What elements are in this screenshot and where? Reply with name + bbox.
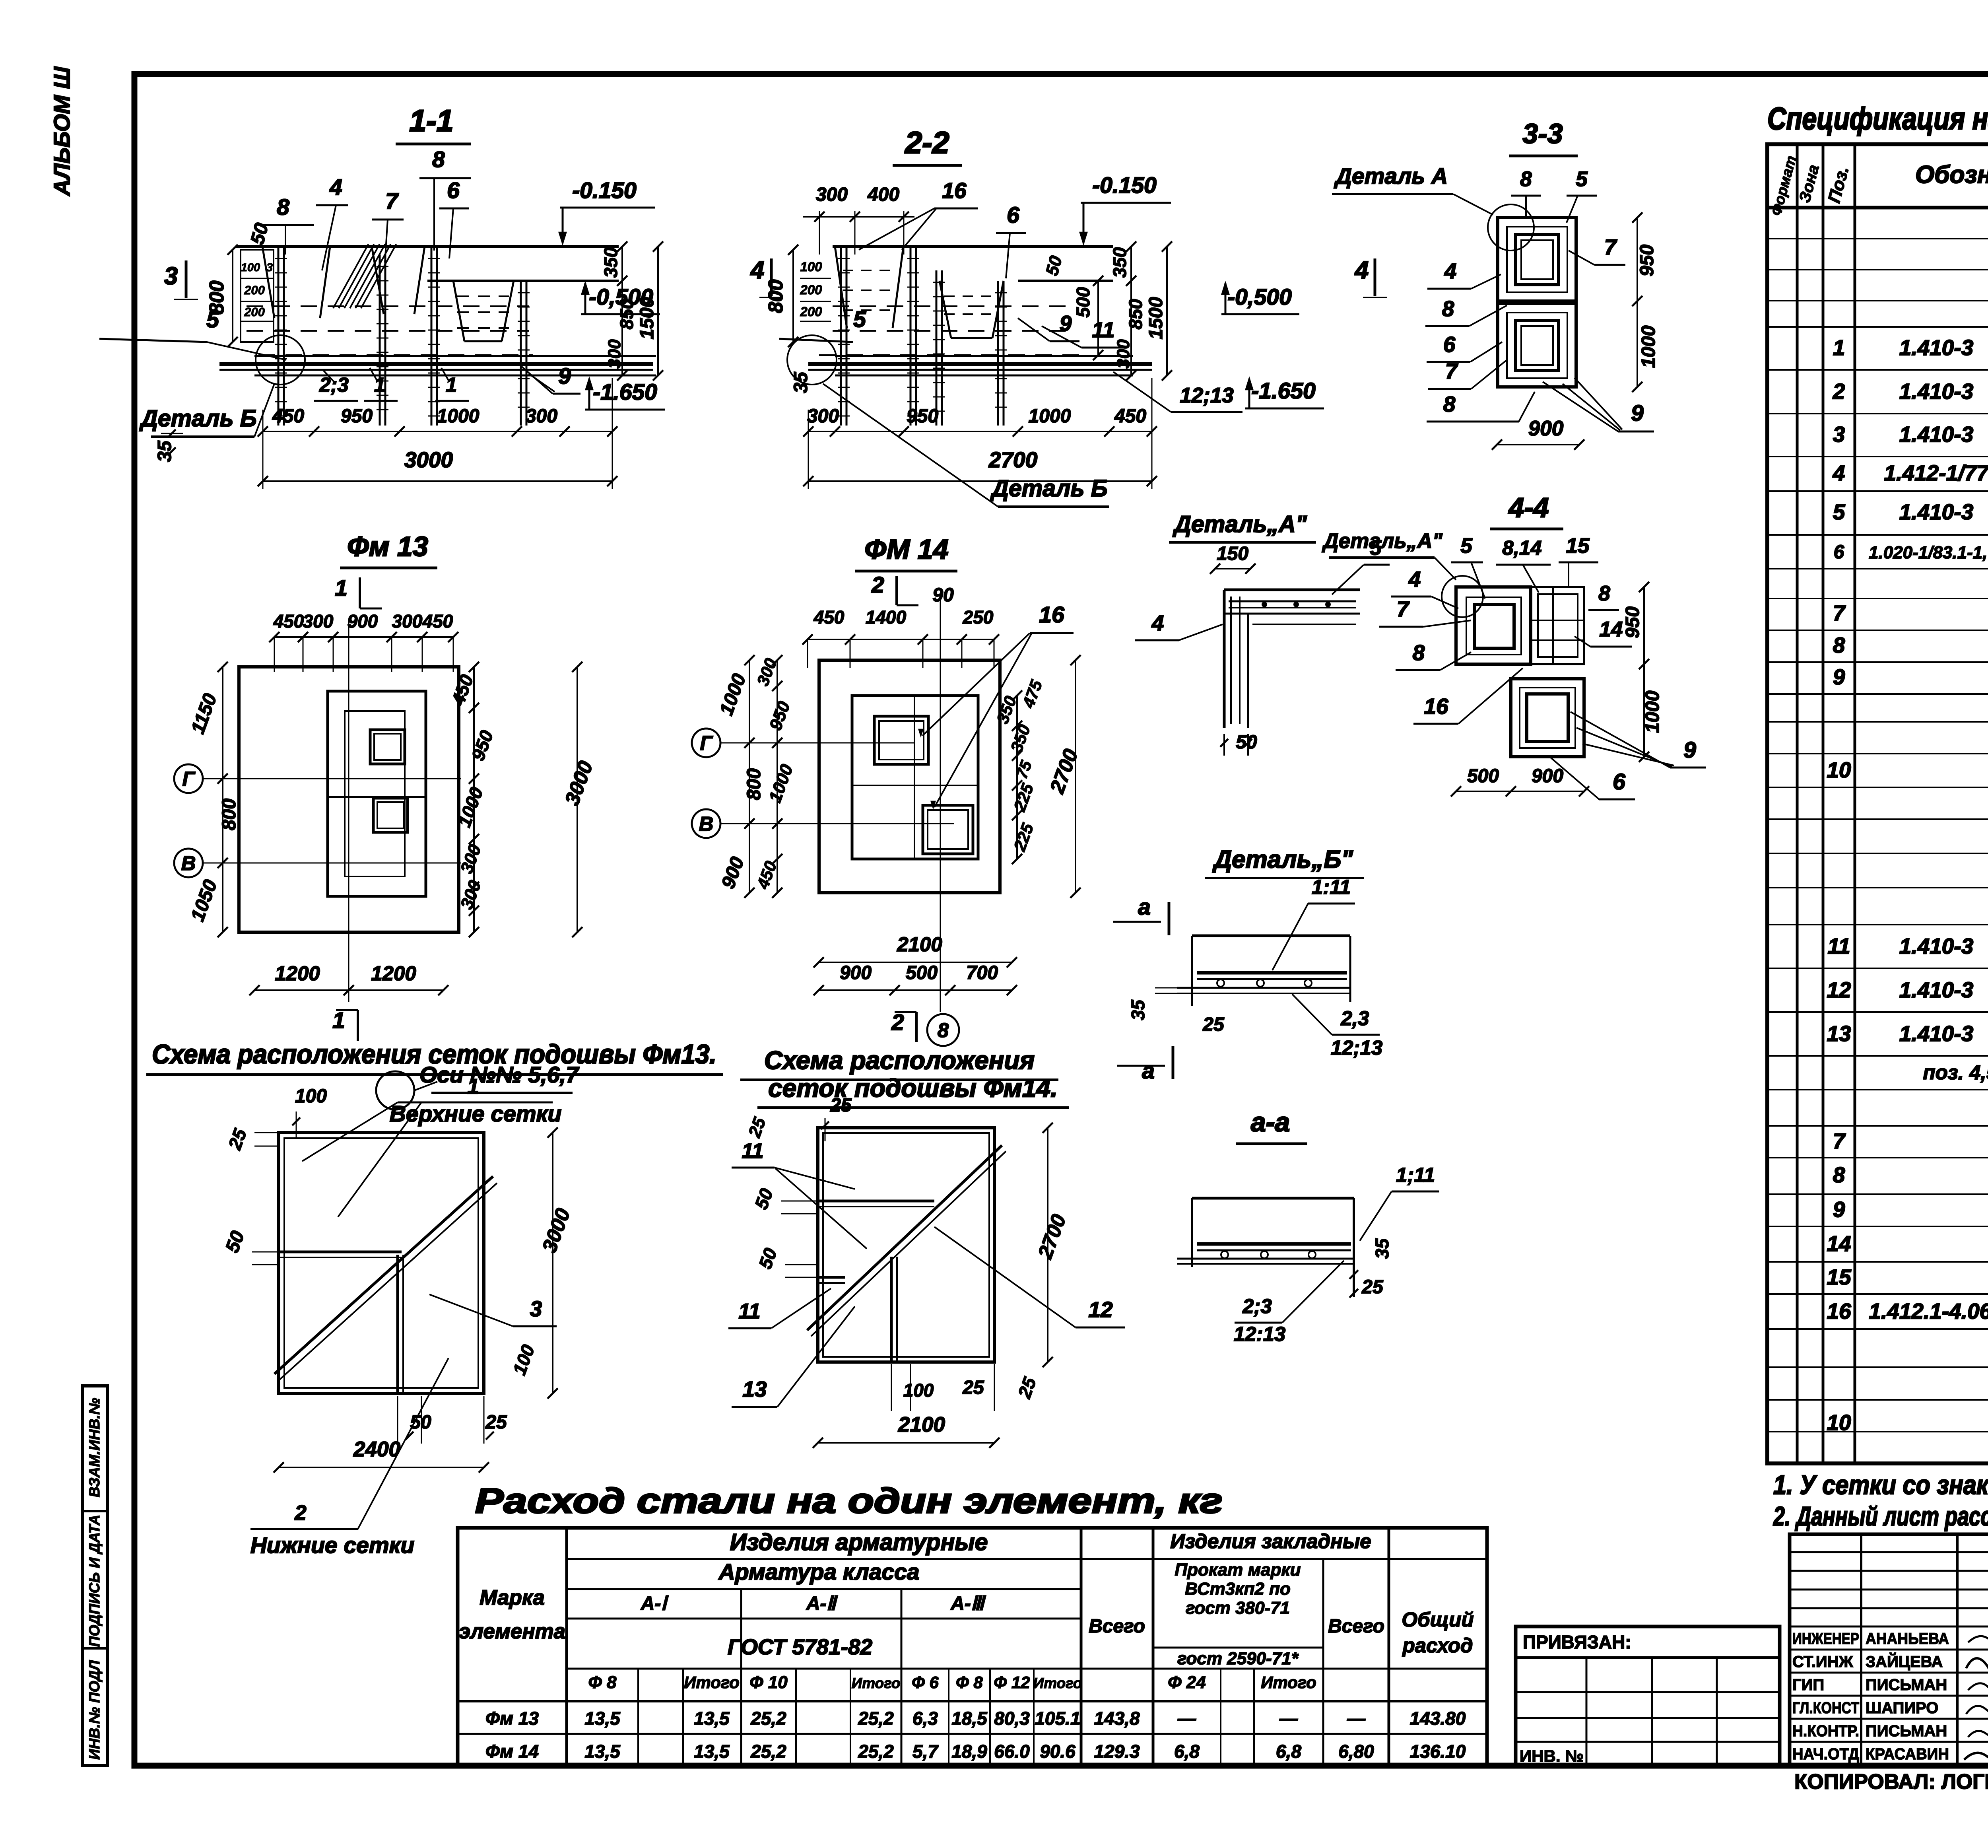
svg-text:1. У сетки со знаком* снять ве: 1. У сетки со знаком* снять верхний стер…: [1773, 1470, 1988, 1500]
svg-text:а-а: а-а: [1251, 1107, 1290, 1137]
svg-text:450: 450: [813, 607, 845, 628]
svg-text:4: 4: [1833, 461, 1845, 485]
detail B label (2-2): [823, 384, 1109, 507]
svg-text:элемента: элемента: [459, 1620, 565, 1643]
svg-text:ГЛ.КОНСТ: ГЛ.КОНСТ: [1792, 1699, 1859, 1717]
svg-text:Нижние сетки: Нижние сетки: [250, 1533, 415, 1558]
plan Фм14 section mark 2 (bottom): [891, 1010, 959, 1046]
steel table row Фм13: [485, 1708, 1466, 1729]
svg-text:поз. 4,5и6: поз. 4,5и6: [1923, 1061, 1988, 1084]
svg-text:5: 5: [1370, 536, 1382, 560]
svg-text:100: 100: [903, 1380, 934, 1401]
section 4-4 lower cage: [1511, 679, 1584, 757]
svg-text:25: 25: [830, 1095, 852, 1116]
svg-text:НАЧ.ОТД: НАЧ.ОТД: [1792, 1745, 1859, 1763]
section marker 4 (right of 2-2): [1354, 257, 1387, 297]
svg-text:11: 11: [1092, 317, 1114, 342]
svg-text:6: 6: [1613, 769, 1625, 795]
svg-text:300: 300: [605, 339, 624, 369]
spec row 14: [1827, 1231, 1988, 1256]
section 1-1 rebar ladders: [275, 247, 530, 426]
svg-text:25: 25: [1361, 1277, 1384, 1298]
elevation mark -1.650 (2-2): [1245, 376, 1324, 408]
svg-text:1500: 1500: [637, 297, 658, 339]
svg-text:900: 900: [840, 962, 872, 983]
svg-text:25,2: 25,2: [858, 1708, 894, 1729]
plan Фм14 lower column cage: [923, 805, 973, 854]
svg-text:-0.150: -0.150: [572, 178, 637, 203]
spec row 6: [1834, 542, 1988, 563]
specification table grid: [1767, 144, 1988, 1463]
mesh scheme Фм13 mesh: [274, 1133, 497, 1393]
specification table header labels: [1768, 154, 1988, 218]
svg-text:Деталь„Б": Деталь„Б": [1212, 846, 1353, 873]
svg-text:7: 7: [1604, 235, 1617, 259]
plan Фм14 axes: [692, 597, 954, 1012]
svg-text:ИНВ.№ ПОДЛ: ИНВ.№ ПОДЛ: [86, 1660, 103, 1760]
section 3-3 bottom dimension 900: [1492, 417, 1584, 450]
svg-text:В: В: [181, 852, 196, 874]
svg-text:300: 300: [303, 611, 334, 632]
detail B circle on section 2-2: [787, 335, 837, 385]
svg-text:1.410-3: 1.410-3: [1899, 934, 1974, 958]
svg-text:13,5: 13,5: [694, 1708, 730, 1729]
plan Фм13 outer contour: [239, 667, 459, 932]
spec row 2: [1833, 372, 1988, 413]
svg-text:50: 50: [1236, 732, 1257, 753]
svg-text:450: 450: [273, 611, 304, 632]
elevation mark -0.150 (1-1): [558, 178, 655, 246]
mesh scheme Фм13 title: [146, 1039, 723, 1075]
svg-text:—: —: [1177, 1708, 1196, 1729]
section 2-2 bottom dimension chain: [803, 378, 1157, 489]
svg-text:8: 8: [1598, 582, 1610, 605]
svg-text:13,5: 13,5: [584, 1741, 621, 1762]
svg-text:2700: 2700: [988, 447, 1038, 472]
svg-text:Ф 24: Ф 24: [1168, 1673, 1206, 1692]
svg-text:а: а: [1138, 894, 1151, 920]
steel consumption table title: [475, 1481, 1223, 1520]
spec row 5: [1833, 492, 1988, 533]
svg-text:Ф 8: Ф 8: [956, 1673, 983, 1692]
svg-text:25: 25: [485, 1412, 507, 1433]
svg-text:3000: 3000: [404, 447, 453, 472]
svg-text:2400: 2400: [353, 1438, 400, 1461]
spec row 9: [1833, 665, 1988, 689]
svg-text:КОПИРОВАЛ: ЛОГИНОВА: КОПИРОВАЛ: ЛОГИНОВА: [1794, 1770, 1988, 1794]
svg-text:ВСт3кп2 по: ВСт3кп2 по: [1185, 1579, 1291, 1599]
svg-text:АЛЬБОМ Ш: АЛЬБОМ Ш: [49, 66, 75, 197]
svg-text:300: 300: [1114, 339, 1133, 369]
section 2-2 title: [893, 126, 962, 165]
svg-text:В: В: [699, 812, 714, 835]
svg-text:2;3: 2;3: [1242, 1295, 1272, 1318]
svg-text:2;3: 2;3: [319, 373, 349, 396]
svg-text:9: 9: [558, 363, 571, 389]
svg-text:200: 200: [800, 304, 822, 319]
svg-text:Всего: Всего: [1328, 1616, 1384, 1637]
section a-a drawing: [1177, 1164, 1439, 1345]
svg-text:450: 450: [272, 406, 304, 427]
svg-text:350: 350: [1109, 247, 1130, 278]
svg-text:2: 2: [891, 1010, 904, 1035]
svg-text:Арматура класса: Арматура класса: [718, 1559, 920, 1585]
detail A drawing title: [1169, 511, 1316, 542]
svg-text:105.1: 105.1: [1035, 1708, 1080, 1729]
svg-text:300: 300: [526, 406, 557, 427]
plan Фм14 outer contour: [819, 660, 1000, 893]
svg-text:3: 3: [530, 1296, 542, 1321]
mesh scheme Фм13 dims: [221, 1086, 574, 1473]
signatures (handwritten): [1964, 1635, 1988, 1760]
svg-text:300: 300: [807, 406, 839, 427]
svg-text:А-Ⅱ: А-Ⅱ: [806, 1593, 838, 1614]
plan Фм13 left dimensions: [187, 662, 240, 937]
svg-text:Итого: Итого: [851, 1675, 900, 1691]
spec row 1: [1833, 328, 1988, 369]
detail A label (3-3): [1332, 163, 1493, 215]
svg-text:2: 2: [294, 1501, 306, 1525]
svg-text:ФМ 14: ФМ 14: [864, 534, 948, 565]
svg-text:7: 7: [1445, 359, 1458, 383]
svg-text:Н.КОНТР.: Н.КОНТР.: [1792, 1722, 1859, 1740]
svg-text:7: 7: [1833, 600, 1846, 625]
section marker 3 (left): [164, 260, 198, 299]
svg-text:Фм 13: Фм 13: [347, 531, 428, 562]
svg-text:8: 8: [1443, 392, 1456, 416]
svg-text:136.10: 136.10: [1410, 1741, 1466, 1762]
svg-text:14: 14: [1827, 1231, 1851, 1256]
svg-text:Деталь Б: Деталь Б: [990, 475, 1107, 501]
svg-text:1:11: 1:11: [1312, 876, 1351, 898]
svg-text:ГИП: ГИП: [1792, 1676, 1824, 1694]
svg-text:1400: 1400: [866, 607, 907, 628]
svg-text:11: 11: [1827, 934, 1850, 958]
svg-text:Ф 10: Ф 10: [749, 1673, 788, 1692]
svg-text:ПИСЬМАН: ПИСЬМАН: [1866, 1676, 1947, 1694]
svg-text:8: 8: [1833, 633, 1845, 657]
svg-text:-0,500: -0,500: [1227, 284, 1292, 310]
svg-text:1.020-1/83.1-1, 0.3.0-01: 1.020-1/83.1-1, 0.3.0-01: [1869, 543, 1988, 562]
svg-text:700: 700: [966, 962, 998, 983]
section 4-4 bottom dimensions: [1451, 766, 1589, 797]
svg-text:2: 2: [871, 572, 884, 598]
svg-text:1000: 1000: [1638, 325, 1659, 368]
section 1-1 bottom dimension chain: [154, 378, 617, 489]
section 2-2 foundation body: [819, 247, 1113, 355]
svg-text:3-3: 3-3: [1522, 118, 1563, 149]
svg-text:Деталь Б: Деталь Б: [139, 405, 256, 431]
svg-text:90.6: 90.6: [1040, 1741, 1076, 1762]
spec row 8: [1833, 633, 1988, 657]
svg-text:ПИСЬМАН: ПИСЬМАН: [1866, 1722, 1947, 1740]
svg-text:АНАНЬЕВА: АНАНЬЕВА: [1866, 1630, 1949, 1648]
svg-text:1.410-3: 1.410-3: [1899, 335, 1974, 360]
svg-text:Марка: Марка: [480, 1586, 545, 1609]
svg-text:900: 900: [1528, 417, 1563, 440]
svg-text:900: 900: [1532, 766, 1563, 787]
section 2-2 right dimension chain: [1042, 241, 1172, 381]
section 1-1 callout labels: [99, 147, 580, 401]
svg-text:25,2: 25,2: [858, 1741, 894, 1762]
svg-text:4: 4: [1444, 258, 1457, 283]
spec row 12: [1827, 970, 1988, 1011]
svg-text:500: 500: [1467, 766, 1499, 787]
svg-text:8: 8: [938, 1019, 949, 1042]
section 4-4 callouts top: [1451, 534, 1598, 599]
svg-text:12:13: 12:13: [1234, 1323, 1285, 1345]
section 3-3 title: [1509, 118, 1578, 156]
svg-text:Спецификация на монолитные фун: Спецификация на монолитные фундаменты Фм…: [1767, 101, 1988, 136]
svg-text:9: 9: [1631, 400, 1644, 426]
svg-text:2: 2: [1833, 379, 1845, 404]
svg-text:8: 8: [1413, 640, 1425, 665]
svg-text:ПРИВЯЗАН:: ПРИВЯЗАН:: [1523, 1632, 1631, 1652]
section 4-4 upper-left cage: [1456, 587, 1531, 664]
svg-text:КРАСАВИН: КРАСАВИН: [1866, 1745, 1949, 1763]
steel table row Фм14: [485, 1741, 1466, 1762]
svg-text:800: 800: [205, 280, 228, 314]
plan Фм13 upper column cage: [370, 730, 405, 764]
svg-text:-0.150: -0.150: [1092, 173, 1157, 198]
spec row 16: [1827, 1299, 1988, 1323]
section marker 4 (right of 1-1): [750, 257, 783, 297]
svg-text:7: 7: [1397, 597, 1410, 621]
svg-text:5: 5: [1576, 167, 1588, 191]
svg-text:Ф 8: Ф 8: [588, 1673, 617, 1692]
svg-text:1.410-3: 1.410-3: [1899, 422, 1974, 447]
svg-text:1200: 1200: [275, 962, 320, 985]
svg-text:Фм 14: Фм 14: [485, 1741, 539, 1762]
svg-text:1;11: 1;11: [1396, 1164, 1435, 1186]
section 2-2 left dimension block: [764, 245, 831, 347]
svg-text:13,5: 13,5: [694, 1741, 730, 1762]
spec row 7: [1833, 600, 1988, 625]
plan Фм13 lower column cage: [373, 798, 408, 832]
svg-text:Схема расположения сеток подош: Схема расположения сеток подошвы Фм13.: [152, 1039, 716, 1069]
mesh scheme Фм13 upper mesh label: [302, 1075, 561, 1217]
svg-text:ПОДПИСЬ И ДАТА: ПОДПИСЬ И ДАТА: [86, 1515, 103, 1647]
svg-text:14: 14: [1600, 618, 1623, 641]
svg-text:1.410-3: 1.410-3: [1899, 379, 1974, 404]
detail B circle on section 1-1: [256, 335, 305, 385]
section 3-3 right dimensions: [1632, 212, 1659, 392]
svg-text:1-1: 1-1: [409, 104, 453, 138]
svg-text:4: 4: [750, 257, 764, 284]
svg-text:ВЗАМ.ИНВ.№: ВЗАМ.ИНВ.№: [86, 1398, 103, 1497]
svg-text:гост 2590-71*: гост 2590-71*: [1177, 1649, 1299, 1668]
svg-text:1.410-3: 1.410-3: [1899, 977, 1974, 1002]
svg-text:15: 15: [1566, 534, 1590, 558]
svg-text:1500: 1500: [1145, 297, 1167, 339]
svg-text:6: 6: [1834, 542, 1844, 563]
svg-text:25,2: 25,2: [750, 1741, 786, 1762]
svg-text:6: 6: [1443, 332, 1456, 357]
section 1-1 left dimension block: [205, 221, 274, 347]
mesh scheme Фм14 mesh: [807, 1128, 1006, 1362]
svg-text:5: 5: [1460, 534, 1473, 558]
section 3-3 lower cage: [1498, 303, 1576, 387]
plan Фм13 title: [340, 531, 437, 568]
svg-text:66.0: 66.0: [994, 1741, 1030, 1762]
svg-text:12;13: 12;13: [1180, 384, 1234, 407]
svg-text:-1.650: -1.650: [1251, 378, 1316, 404]
svg-text:Прокат марки: Прокат марки: [1175, 1560, 1301, 1580]
svg-text:950: 950: [341, 406, 373, 427]
svg-text:25: 25: [1202, 1014, 1225, 1035]
section 4-4 side callouts: [1379, 567, 1706, 799]
svg-text:500: 500: [906, 962, 938, 983]
plan Фм14 label 16: [918, 602, 1074, 810]
svg-text:10: 10: [1827, 1410, 1851, 1435]
svg-text:16: 16: [1424, 694, 1448, 719]
svg-text:200: 200: [244, 305, 265, 319]
svg-text:2100: 2100: [898, 1413, 945, 1436]
svg-text:1000: 1000: [437, 406, 480, 427]
mesh scheme Фм14 dims and labels: [728, 1095, 1125, 1448]
svg-text:4: 4: [1151, 610, 1164, 635]
plan Фм14 upper column cage: [874, 716, 928, 764]
svg-text:расход: расход: [1402, 1634, 1473, 1657]
svg-text:18,5: 18,5: [951, 1708, 988, 1729]
svg-text:850: 850: [616, 299, 637, 329]
svg-text:7: 7: [385, 188, 399, 214]
plan Фм14 section mark 2 (top): [871, 572, 918, 605]
svg-text:450: 450: [422, 611, 453, 632]
svg-text:1.410-3: 1.410-3: [1899, 1021, 1974, 1046]
svg-text:ЗАЙЦЕВА: ЗАЙЦЕВА: [1866, 1652, 1943, 1671]
svg-text:11: 11: [742, 1139, 763, 1163]
marker a (top): [1113, 894, 1169, 935]
svg-text:900: 900: [348, 611, 378, 632]
notes under specification: [1773, 1470, 1988, 1531]
svg-text:800: 800: [744, 768, 765, 800]
steel table header texts: [459, 1529, 1474, 1692]
svg-text:25: 25: [962, 1377, 984, 1398]
spec row 9b: [1833, 1197, 1988, 1222]
svg-text:200: 200: [800, 282, 822, 297]
plan Фм13 section mark 1 (top): [335, 575, 382, 608]
plan Фм14 title: [855, 534, 957, 571]
svg-text:800: 800: [219, 799, 240, 830]
svg-text:800: 800: [764, 279, 787, 313]
svg-text:15: 15: [1827, 1265, 1852, 1289]
svg-text:1200: 1200: [371, 962, 416, 985]
svg-text:13: 13: [742, 1377, 767, 1401]
svg-text:9: 9: [1683, 737, 1696, 763]
svg-text:Деталь„А": Деталь„А": [1172, 511, 1307, 537]
section 2-2 rebar ladders: [838, 247, 1007, 426]
svg-text:ШАПИРО: ШАПИРО: [1866, 1699, 1938, 1717]
svg-text:6: 6: [1007, 202, 1019, 228]
steel consumption table grid: [458, 1528, 1487, 1766]
section 3-3 upper cage: [1498, 218, 1576, 301]
svg-text:1: 1: [1833, 335, 1845, 360]
svg-text:50: 50: [410, 1412, 431, 1433]
svg-text:9: 9: [1060, 311, 1072, 336]
svg-text:35: 35: [1372, 1238, 1392, 1259]
svg-text:Фм 13: Фм 13: [485, 1708, 539, 1729]
section 1-1 base slab with mesh: [219, 356, 656, 375]
svg-text:Общий: Общий: [1402, 1608, 1474, 1631]
plan Фм14 left dimensions: [716, 655, 797, 898]
svg-text:18,9: 18,9: [951, 1741, 987, 1762]
svg-text:12;13: 12;13: [1331, 1036, 1382, 1059]
detail A circle (3-3): [1488, 204, 1534, 251]
spec row 11: [1827, 927, 1988, 968]
svg-text:250: 250: [963, 607, 994, 628]
svg-text:—: —: [1347, 1708, 1366, 1729]
svg-text:Всего: Всего: [1089, 1616, 1145, 1637]
elevation mark -0.500 (1-1): [581, 281, 660, 314]
section 1-1 foundation body: [236, 244, 619, 355]
detail B drawing: [1128, 876, 1382, 1059]
svg-text:Ф 6: Ф 6: [912, 1673, 939, 1692]
svg-text:сеток подошвы Фм14.: сеток подошвы Фм14.: [768, 1074, 1058, 1102]
svg-text:8: 8: [1833, 1162, 1845, 1187]
svg-text:200: 200: [244, 283, 265, 297]
svg-text:2-2: 2-2: [904, 126, 949, 160]
svg-text:Расход стали на один элемент,: Расход стали на один элемент, кг: [475, 1481, 1223, 1520]
svg-text:Схема расположения: Схема расположения: [764, 1046, 1035, 1075]
svg-text:6,80: 6,80: [1338, 1741, 1374, 1762]
elevation mark -1.650 (1-1): [585, 376, 665, 410]
plan Фм13 axes: [174, 620, 461, 1002]
svg-text:100: 100: [241, 261, 260, 274]
svg-text:500: 500: [1073, 287, 1093, 317]
detail A drawing: [1135, 536, 1390, 756]
svg-text:Г: Г: [700, 732, 713, 754]
svg-text:850: 850: [1125, 299, 1146, 329]
svg-text:7: 7: [1833, 1129, 1846, 1153]
svg-text:1000: 1000: [1642, 690, 1663, 733]
svg-text:25,2: 25,2: [750, 1708, 786, 1729]
svg-text:Г: Г: [182, 768, 196, 790]
svg-text:Деталь А: Деталь А: [1334, 163, 1448, 189]
svg-text:16: 16: [942, 178, 967, 203]
svg-text:Верхние сетки: Верхние сетки: [390, 1101, 562, 1127]
spec row 10b: [1827, 1410, 1988, 1435]
svg-text:9: 9: [1833, 665, 1845, 689]
svg-text:143.80: 143.80: [1410, 1708, 1466, 1729]
privyazan table: [1516, 1626, 1780, 1766]
spec row 13: [1827, 1014, 1988, 1055]
svg-text:9: 9: [1833, 1197, 1845, 1222]
svg-text:-1.650: -1.650: [593, 379, 657, 405]
svg-text:35: 35: [790, 371, 812, 393]
svg-text:А-Ⅰ: А-Ⅰ: [641, 1593, 669, 1614]
svg-text:6,8: 6,8: [1276, 1741, 1301, 1762]
svg-text:3: 3: [1833, 422, 1845, 447]
svg-text:950: 950: [1637, 245, 1658, 276]
svg-text:А-Ⅲ: А-Ⅲ: [950, 1593, 986, 1614]
svg-text:950: 950: [1622, 606, 1643, 638]
spec row 4: [1833, 461, 1988, 485]
spec row 7b: [1833, 1129, 1988, 1153]
svg-text:а: а: [1142, 1058, 1155, 1084]
svg-text:150: 150: [1217, 543, 1248, 564]
mesh scheme Фм14 title: [740, 1046, 1069, 1108]
svg-text:8: 8: [277, 194, 289, 220]
svg-text:Изделия закладные: Изделия закладные: [1170, 1530, 1371, 1553]
texts below frame: [1794, 1761, 1988, 1794]
plan Фм13 section mark 1 (bottom): [332, 1008, 358, 1041]
svg-text:80,3: 80,3: [994, 1708, 1030, 1729]
plan Фм13 axes note: [376, 1062, 579, 1110]
svg-text:3: 3: [266, 261, 273, 274]
svg-text:6,8: 6,8: [1174, 1741, 1200, 1762]
svg-text:5: 5: [1833, 499, 1846, 524]
